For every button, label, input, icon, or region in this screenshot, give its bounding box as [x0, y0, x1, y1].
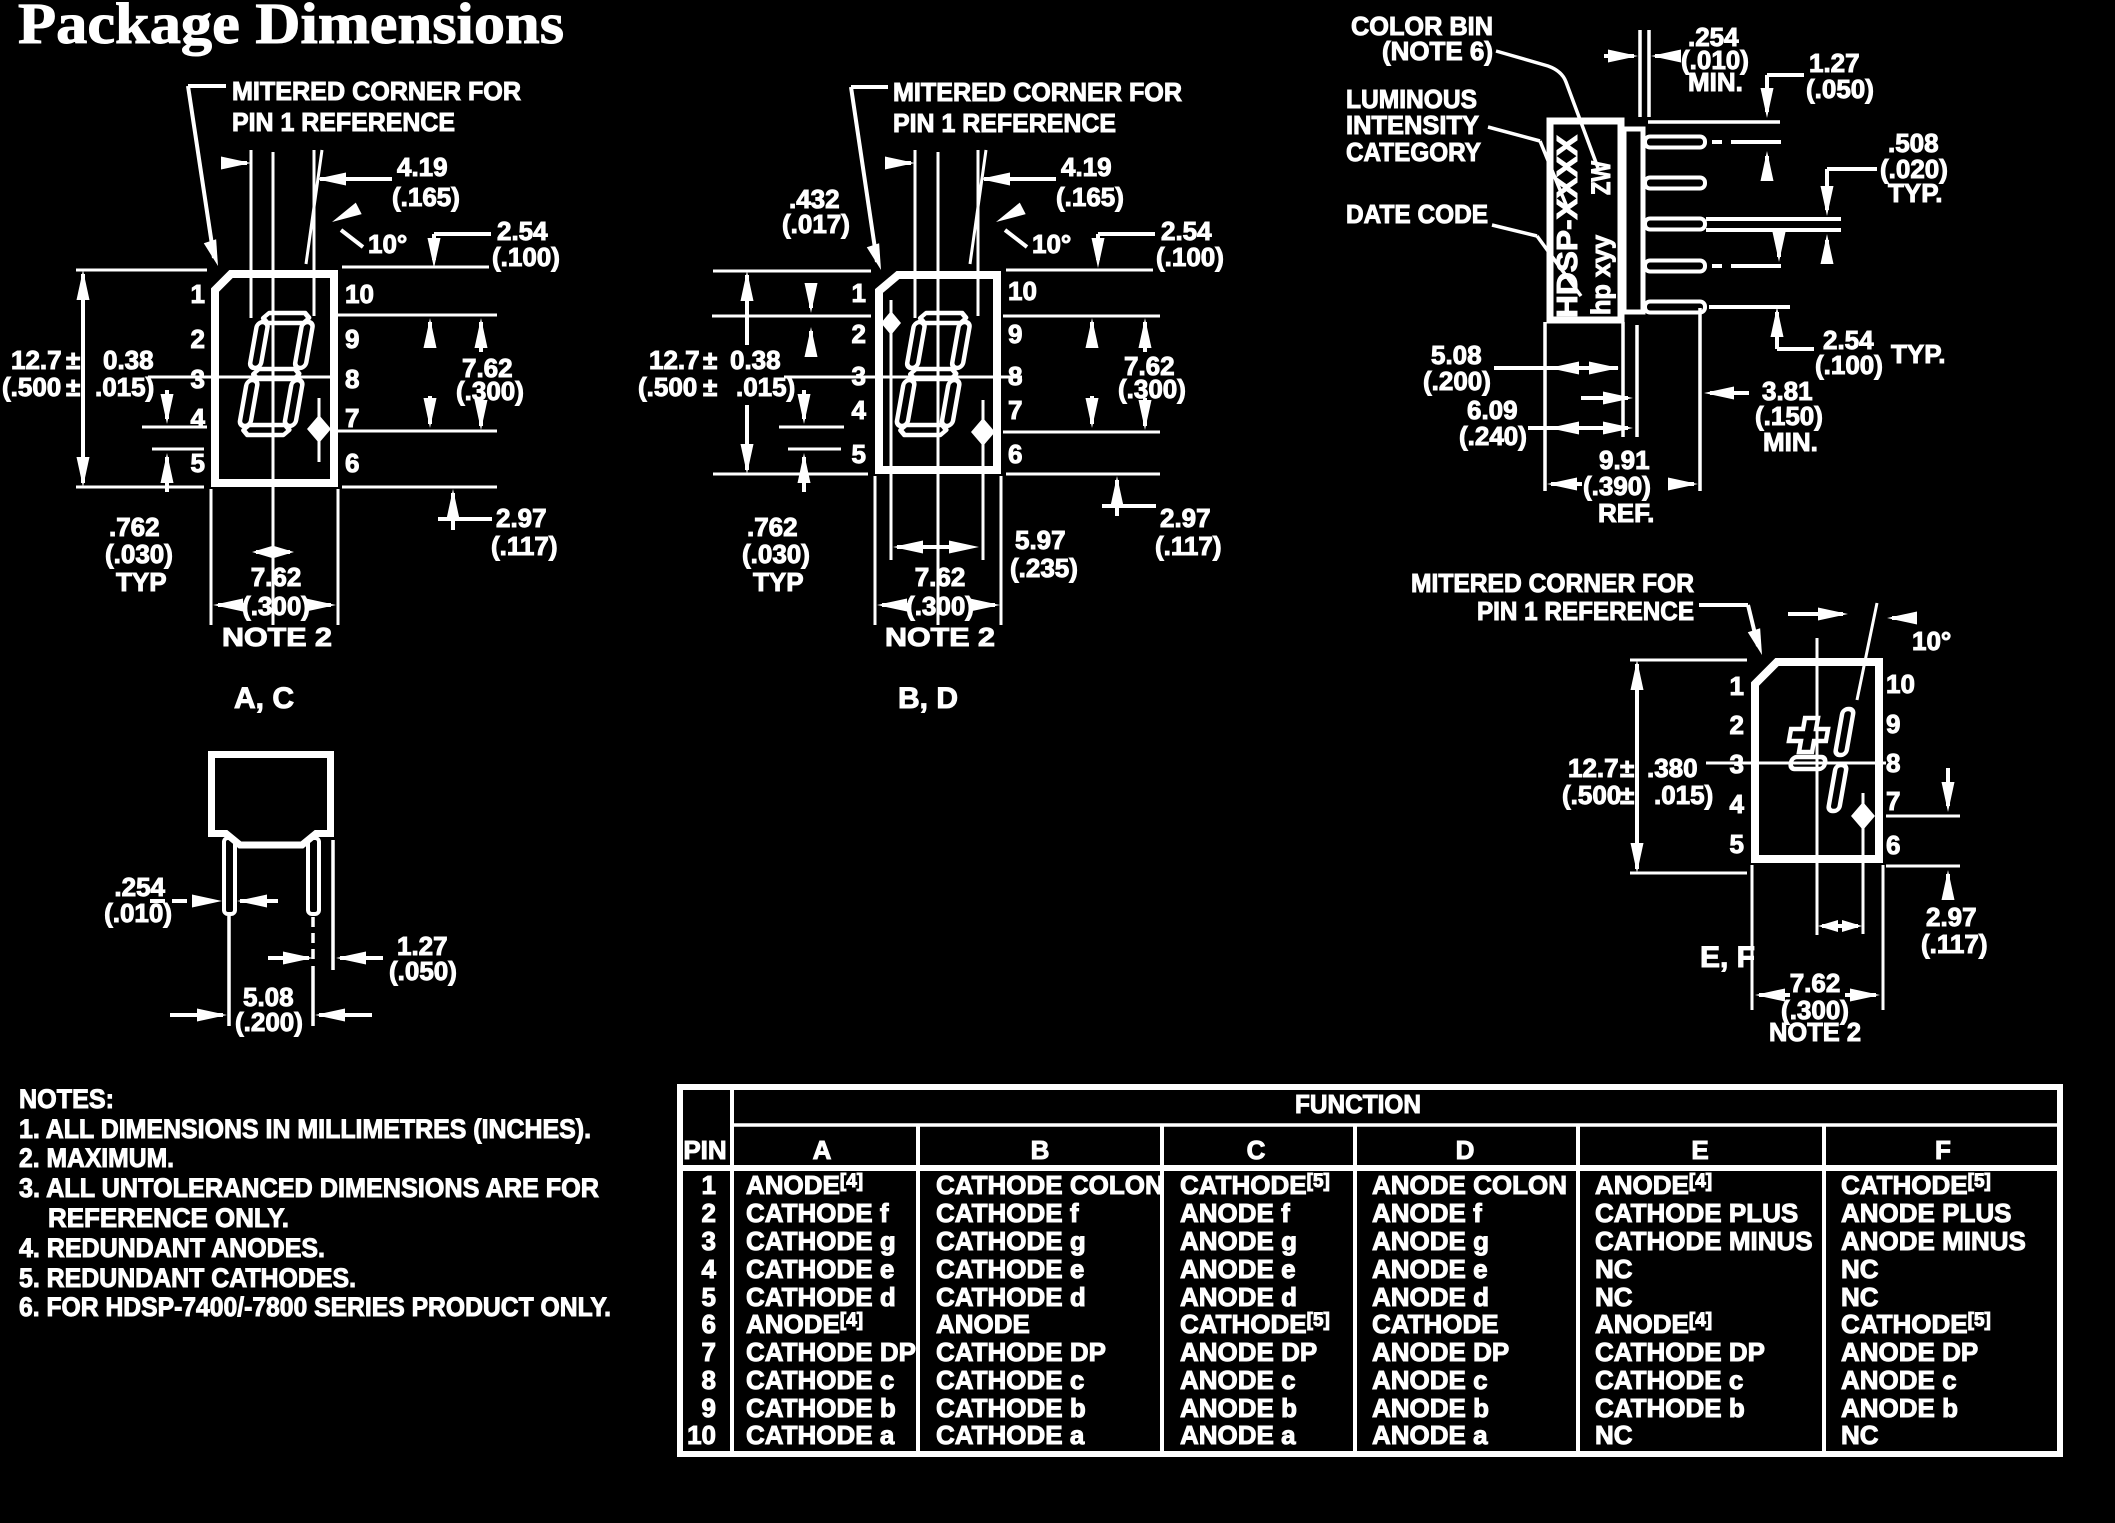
- svg-text:NOTE 2: NOTE 2: [1769, 1017, 1861, 1047]
- pin extension dash lines: [1706, 142, 1841, 307]
- svg-text:10°: 10°: [1032, 229, 1071, 259]
- svg-text:ANODE DP: ANODE DP: [1180, 1337, 1317, 1367]
- svg-text:(.500: (.500: [638, 372, 697, 402]
- svg-text:ANODE[4]: ANODE[4]: [746, 1309, 863, 1339]
- 5.97 (.235) dimension (B,D): [893, 525, 1078, 583]
- 7-segment digit 8 (A,C): [237, 313, 315, 435]
- svg-text:±: ±: [66, 372, 80, 402]
- svg-text:7.62: 7.62: [1790, 968, 1841, 998]
- package outline A,C with mitered pin-1 corner: [215, 274, 334, 483]
- svg-text:CATHODE b: CATHODE b: [936, 1393, 1086, 1423]
- svg-text:7: 7: [702, 1337, 716, 1367]
- svg-text:4.19: 4.19: [1061, 152, 1112, 182]
- view label B, D: [898, 682, 958, 715]
- svg-text:±: ±: [703, 372, 717, 402]
- pin numbers 6-10 right side (E,F): [1886, 669, 1915, 860]
- 1.27 (.050) dimension: [268, 840, 457, 986]
- 7-segment digit 8 (B,D): [894, 313, 972, 435]
- body bottom extension lines: [1545, 308, 1700, 491]
- svg-text:CATHODE d: CATHODE d: [936, 1282, 1086, 1312]
- svg-text:ANODE d: ANODE d: [1372, 1282, 1489, 1312]
- svg-text:.762: .762: [109, 512, 160, 542]
- digit one lower segment (E,F): [1828, 765, 1847, 811]
- 9.91 (.390) REF dimension: [1547, 445, 1698, 528]
- 5.08 (.200) dimension: [1423, 340, 1619, 396]
- 5.08 (.200) dimension: [170, 916, 372, 1037]
- 12.7 +/- 0.38 left dimension (A,C): [2, 270, 207, 487]
- svg-text:(.300): (.300): [242, 591, 310, 621]
- svg-text:4: 4: [1730, 789, 1745, 819]
- table column C data: [1180, 1170, 1330, 1450]
- svg-text:MITERED CORNER FOR: MITERED CORNER FOR: [1411, 568, 1694, 598]
- svg-text:6. FOR HDSP-7400/-7800 SERIES: 6. FOR HDSP-7400/-7800 SERIES PRODUCT ON…: [19, 1292, 611, 1322]
- svg-text:.015): .015): [95, 372, 154, 402]
- svg-text:4: 4: [702, 1254, 717, 1284]
- title: Package Dimensions: [18, 0, 564, 56]
- leader luminous intensity: [1488, 127, 1567, 207]
- svg-text:.380: .380: [1647, 753, 1698, 783]
- svg-text:(.010): (.010): [104, 898, 172, 928]
- svg-text:PIN 1 REFERENCE: PIN 1 REFERENCE: [232, 107, 455, 137]
- svg-text:5: 5: [1730, 829, 1744, 859]
- svg-text:CATHODE b: CATHODE b: [746, 1393, 896, 1423]
- package outline B,D with mitered pin-1 corner: [879, 275, 997, 470]
- table column letters A-F: [813, 1135, 1951, 1165]
- svg-text:(.235): (.235): [1010, 553, 1078, 583]
- svg-text:CATHODE f: CATHODE f: [936, 1198, 1079, 1228]
- digit vertical centerline (E,F): [1816, 638, 1819, 935]
- svg-text:ANODE g: ANODE g: [1180, 1226, 1297, 1256]
- svg-text:CATHODE e: CATHODE e: [746, 1254, 894, 1284]
- svg-text:(.200): (.200): [235, 1007, 303, 1037]
- svg-text:9: 9: [702, 1393, 716, 1423]
- pin3-8 mid line (A,C): [148, 376, 338, 379]
- svg-text:CATHODE g: CATHODE g: [936, 1226, 1086, 1256]
- svg-text:(.100): (.100): [1156, 242, 1224, 272]
- table column F data: [1841, 1170, 2026, 1450]
- end view pin left: [224, 838, 235, 914]
- svg-text:CATHODE MINUS: CATHODE MINUS: [1595, 1226, 1813, 1256]
- svg-text:10: 10: [687, 1420, 716, 1450]
- svg-text:CATHODE DP: CATHODE DP: [1595, 1337, 1765, 1367]
- svg-text:ANODE f: ANODE f: [1372, 1198, 1482, 1228]
- 2.97 (.117) dimension (B,D): [1006, 474, 1222, 561]
- svg-text:(.117): (.117): [1155, 531, 1222, 561]
- svg-text:12.7: 12.7: [11, 345, 62, 375]
- svg-text:ANODE c: ANODE c: [1372, 1365, 1488, 1395]
- svg-text:10°: 10°: [1912, 626, 1951, 656]
- svg-text:10°: 10°: [368, 229, 407, 259]
- svg-text:CATHODE[5]: CATHODE[5]: [1180, 1309, 1330, 1339]
- 7.62 (.300) right-side dimension (A,C): [338, 315, 524, 431]
- svg-text:ANODE a: ANODE a: [1180, 1420, 1296, 1450]
- svg-text:0.38: 0.38: [730, 345, 781, 375]
- 4.19 dimension verticals and 10-deg tilt line (B,D): [915, 150, 986, 318]
- svg-text:CATHODE g: CATHODE g: [746, 1226, 896, 1256]
- svg-text:(.165): (.165): [1056, 182, 1124, 212]
- svg-text:ANODE g: ANODE g: [1372, 1226, 1489, 1256]
- svg-text:CATHODE[5]: CATHODE[5]: [1841, 1170, 1991, 1200]
- svg-text:2: 2: [702, 1198, 716, 1228]
- svg-text:(.390): (.390): [1583, 471, 1651, 501]
- svg-text:NC: NC: [1841, 1254, 1879, 1284]
- svg-text:(.240): (.240): [1459, 421, 1527, 451]
- svg-text:ANODE a: ANODE a: [1372, 1420, 1488, 1450]
- label COLOR BIN (NOTE 6): [1351, 11, 1493, 66]
- small double arrow center-to-DP (E,F): [1818, 920, 1862, 932]
- svg-text:CATHODE a: CATHODE a: [746, 1420, 895, 1450]
- svg-text:TYP.: TYP.: [1888, 178, 1942, 208]
- side view pins 1-5: [1645, 137, 1705, 313]
- .762 (.030) TYP label (B,D): [742, 512, 810, 597]
- table header lines: [680, 1125, 2060, 1168]
- rotated part marking HDSP-XXXX: [1552, 134, 1584, 318]
- top arrows and 10 deg label (E,F): [1788, 608, 1951, 657]
- svg-text:A, C: A, C: [234, 682, 294, 715]
- svg-text:E, F: E, F: [1700, 941, 1755, 974]
- svg-text:7: 7: [1886, 786, 1900, 816]
- 10 deg label and arrow (B,D): [993, 203, 1071, 259]
- svg-text:ANODE d: ANODE d: [1180, 1282, 1297, 1312]
- svg-text:2: 2: [191, 324, 205, 354]
- svg-text:Package Dimensions: Package Dimensions: [18, 0, 564, 56]
- svg-text:(.300): (.300): [1118, 374, 1186, 404]
- svg-text:NOTE 2: NOTE 2: [222, 622, 332, 652]
- 7.62 (.300) NOTE 2 bottom dimension (E,F): [1752, 865, 1883, 1047]
- colon dot diamond upper-left (B,D): [881, 300, 901, 560]
- 1.27 (.050) dimension: [1648, 48, 1874, 181]
- pin numbers 6-10 right side (A,C): [345, 279, 374, 478]
- svg-text:ANODE e: ANODE e: [1372, 1254, 1488, 1284]
- 2.97 (.117) dimension (A,C): [342, 487, 558, 561]
- svg-text:ANODE b: ANODE b: [1372, 1393, 1489, 1423]
- decimal point diamond (A,C): [307, 398, 331, 462]
- small double arrow center-to-DP (A,C): [252, 546, 294, 558]
- leader color bin: [1496, 51, 1598, 168]
- svg-text:CATHODE d: CATHODE d: [746, 1282, 896, 1312]
- 2.54 pitch arrow mid: [1773, 232, 1786, 262]
- svg-text:A: A: [813, 1135, 832, 1165]
- svg-text:7: 7: [1008, 395, 1022, 425]
- svg-text:ANODE DP: ANODE DP: [1372, 1337, 1509, 1367]
- svg-text:2.97: 2.97: [1926, 902, 1977, 932]
- svg-text:CATHODE b: CATHODE b: [1595, 1393, 1745, 1423]
- 3.81 (.150) MIN dimension: [1704, 376, 1823, 457]
- 2.54 (.100) TYP dimension bottom: [1771, 307, 1946, 380]
- 7.62 (.300) NOTE 2 bottom dimension (A,C): [211, 489, 338, 652]
- table column B data: [936, 1170, 1164, 1450]
- svg-text:ANODE c: ANODE c: [1841, 1365, 1957, 1395]
- svg-text:6: 6: [1886, 830, 1900, 860]
- leader to mitered corner (A,C): [188, 86, 226, 268]
- svg-text:(.030): (.030): [105, 539, 173, 569]
- .254 (.010) pin width dimension: [104, 872, 278, 928]
- svg-text:DATE CODE: DATE CODE: [1346, 199, 1488, 229]
- svg-text:(.050): (.050): [1806, 74, 1874, 104]
- svg-text:CATHODE e: CATHODE e: [936, 1254, 1084, 1284]
- svg-text:9: 9: [345, 324, 359, 354]
- label: MITERED CORNER FOR PIN 1 REFERENCE (E,F): [1411, 568, 1694, 626]
- svg-text:CATHODE DP: CATHODE DP: [936, 1337, 1106, 1367]
- svg-text:4.19: 4.19: [397, 152, 448, 182]
- svg-text:(NOTE 6): (NOTE 6): [1382, 36, 1493, 66]
- svg-text:8: 8: [345, 364, 359, 394]
- svg-text:7: 7: [345, 403, 359, 433]
- table column E data: [1595, 1170, 1813, 1450]
- svg-text:CATHODE: CATHODE: [1372, 1309, 1499, 1339]
- leader to mitered corner (E,F): [1699, 605, 1768, 657]
- 4.19 (.165) dimension arrows and text (A,C): [221, 152, 460, 212]
- table header FUNCTION: [1295, 1089, 1421, 1119]
- svg-text:(.300): (.300): [456, 376, 524, 406]
- extra pitch arrow: [1581, 392, 1633, 405]
- svg-text:(.165): (.165): [392, 182, 460, 212]
- svg-text:12.7: 12.7: [649, 345, 700, 375]
- package outline E,F with mitered pin-1 corner: [1755, 662, 1879, 859]
- svg-text:ANODE: ANODE: [936, 1309, 1030, 1339]
- svg-text:5: 5: [702, 1282, 716, 1312]
- 2.54 (.100) dimension (B,D): [1006, 216, 1224, 272]
- 2.97 (.117) dimension (E,F): [1886, 768, 1988, 959]
- svg-text:(.300): (.300): [906, 591, 974, 621]
- svg-text:6: 6: [345, 448, 359, 478]
- svg-text:PIN: PIN: [683, 1135, 726, 1165]
- svg-text:(.030): (.030): [742, 539, 810, 569]
- svg-text:D: D: [1456, 1135, 1475, 1165]
- pin3-8 mid line (B,D): [784, 376, 1022, 379]
- 7.62 (.300) right-side dimension (B,D): [1003, 316, 1186, 432]
- svg-text:TYP: TYP: [753, 567, 804, 597]
- svg-text:±: ±: [1620, 753, 1634, 783]
- svg-text:CATHODE PLUS: CATHODE PLUS: [1595, 1198, 1798, 1228]
- decimal point diamond lower-right (B,D): [971, 400, 995, 560]
- svg-text:NOTE 2: NOTE 2: [885, 622, 995, 652]
- svg-text:PIN 1 REFERENCE: PIN 1 REFERENCE: [1477, 596, 1694, 626]
- svg-text:.015): .015): [736, 372, 795, 402]
- leader date code: [1492, 225, 1581, 296]
- end view pin right: [308, 838, 319, 914]
- svg-text:7.62: 7.62: [251, 562, 302, 592]
- svg-text:(.500: (.500: [2, 372, 61, 402]
- pin numbers 6-10 right side (B,D): [1008, 276, 1037, 469]
- svg-text:F: F: [1935, 1135, 1951, 1165]
- svg-text:ANODE[4]: ANODE[4]: [1595, 1309, 1712, 1339]
- svg-text:CATHODE COLON: CATHODE COLON: [936, 1170, 1164, 1200]
- rotated marking ZW (color bin): [1586, 161, 1616, 195]
- 10 deg label and arrow (A,C): [329, 203, 407, 259]
- side view package body: [1550, 121, 1643, 320]
- svg-text:2. MAXIMUM.: 2. MAXIMUM.: [19, 1143, 174, 1173]
- notes block: [19, 1084, 611, 1322]
- svg-text:4. REDUNDANT ANODES.: 4. REDUNDANT ANODES.: [19, 1233, 325, 1263]
- 7.62 (.300) NOTE 2 bottom dimension (B,D): [875, 476, 1001, 652]
- svg-text:ANODE e: ANODE e: [1180, 1254, 1296, 1284]
- svg-text:5.97: 5.97: [1015, 525, 1066, 555]
- 4.19 (.165) dimension arrows and text (B,D): [885, 152, 1124, 212]
- digit one upper segment (E,F): [1835, 709, 1854, 755]
- svg-text:±: ±: [703, 345, 717, 375]
- svg-text:2: 2: [1730, 710, 1744, 740]
- svg-text:INTENSITY: INTENSITY: [1346, 110, 1479, 140]
- svg-text:±: ±: [1620, 780, 1634, 810]
- svg-text:(.100): (.100): [492, 242, 560, 272]
- digit vertical centerline (A,C): [272, 152, 275, 625]
- svg-text:5: 5: [191, 448, 205, 478]
- svg-text:MITERED CORNER FOR: MITERED CORNER FOR: [232, 76, 521, 106]
- svg-text:CATHODE DP: CATHODE DP: [746, 1337, 916, 1367]
- svg-text:3. ALL UNTOLERANCED DIMENSIONS: 3. ALL UNTOLERANCED DIMENSIONS ARE FOR: [19, 1173, 599, 1203]
- label: MITERED CORNER FOR PIN 1 REFERENCE (A,C): [232, 76, 521, 137]
- svg-text:CATHODE f: CATHODE f: [746, 1198, 889, 1228]
- label LUMINOUS INTENSITY CATEGORY: [1346, 84, 1481, 167]
- svg-text:MITERED CORNER FOR: MITERED CORNER FOR: [893, 77, 1182, 107]
- svg-text:6: 6: [1008, 439, 1022, 469]
- svg-text:10: 10: [1008, 276, 1037, 306]
- svg-text:12.7: 12.7: [1568, 753, 1619, 783]
- svg-text:CATHODE c: CATHODE c: [936, 1365, 1084, 1395]
- table column D data: [1372, 1170, 1567, 1450]
- svg-text:HDSP-XXXX: HDSP-XXXX: [1552, 134, 1584, 318]
- svg-text:9: 9: [1008, 319, 1022, 349]
- table pin number column: [687, 1170, 716, 1450]
- digit vertical centerline (B,D): [937, 152, 940, 625]
- 10-deg tilt line (E,F): [1857, 603, 1877, 700]
- svg-text:(.017): (.017): [782, 209, 850, 239]
- svg-text:NC: NC: [1595, 1420, 1633, 1450]
- pin function table frame: [680, 1087, 2060, 1454]
- table column dividers: [732, 1087, 1824, 1454]
- pin numbers 1-5 left side (B,D): [852, 278, 867, 469]
- svg-text:hp xyy: hp xyy: [1586, 235, 1616, 315]
- svg-text:1: 1: [191, 279, 205, 309]
- svg-text:3: 3: [191, 364, 205, 394]
- svg-text:REFERENCE ONLY.: REFERENCE ONLY.: [48, 1203, 289, 1233]
- svg-text:MIN.: MIN.: [1763, 427, 1818, 457]
- label DATE CODE: [1346, 199, 1488, 229]
- svg-text:(.117): (.117): [491, 531, 558, 561]
- svg-text:7.62: 7.62: [915, 562, 966, 592]
- view label E, F: [1700, 941, 1755, 974]
- svg-text:C: C: [1247, 1135, 1266, 1165]
- svg-text:(.117): (.117): [1921, 929, 1988, 959]
- svg-text:NOTES:: NOTES:: [19, 1084, 114, 1114]
- svg-text:2.97: 2.97: [496, 503, 547, 533]
- svg-text:.015): .015): [1654, 780, 1713, 810]
- .254 (.010) MIN dimension: [1604, 22, 1749, 117]
- svg-text:CATEGORY: CATEGORY: [1346, 137, 1481, 167]
- svg-text:CATHODE[5]: CATHODE[5]: [1841, 1309, 1991, 1339]
- 6.09 (.240) dimension: [1459, 395, 1633, 451]
- svg-text:ANODE DP: ANODE DP: [1841, 1337, 1978, 1367]
- svg-text:CATHODE a: CATHODE a: [936, 1420, 1085, 1450]
- svg-text:NC: NC: [1595, 1282, 1633, 1312]
- svg-text:±: ±: [66, 345, 80, 375]
- pin numbers 1-5 left side (A,C): [191, 279, 206, 478]
- svg-text:2: 2: [852, 319, 866, 349]
- 12.7 +/- 0.38 left dimension (B,D): [638, 271, 871, 474]
- rotated marking hp xyy: [1586, 235, 1616, 315]
- svg-text:ZW: ZW: [1586, 161, 1616, 195]
- svg-text:B: B: [1031, 1135, 1050, 1165]
- svg-text:10: 10: [345, 279, 374, 309]
- svg-text:ANODE c: ANODE c: [1180, 1365, 1296, 1395]
- svg-text:(.500: (.500: [1562, 780, 1621, 810]
- svg-text:NC: NC: [1841, 1282, 1879, 1312]
- svg-text:FUNCTION: FUNCTION: [1295, 1089, 1421, 1119]
- svg-text:NC: NC: [1841, 1420, 1879, 1450]
- svg-text:E: E: [1691, 1135, 1708, 1165]
- svg-text:CATHODE c: CATHODE c: [746, 1365, 894, 1395]
- svg-text:CATHODE c: CATHODE c: [1595, 1365, 1743, 1395]
- svg-text:ANODE MINUS: ANODE MINUS: [1841, 1226, 2026, 1256]
- svg-text:8: 8: [1886, 748, 1900, 778]
- end view package body with seating rib: [212, 755, 331, 846]
- table column A data: [746, 1170, 916, 1450]
- svg-text:ANODE[4]: ANODE[4]: [746, 1170, 863, 1200]
- svg-text:0.38: 0.38: [103, 345, 154, 375]
- svg-text:1: 1: [702, 1170, 716, 1200]
- .762 (.030) TYP label (A,C): [105, 512, 173, 597]
- svg-text:6: 6: [702, 1309, 716, 1339]
- svg-text:5. REDUNDANT CATHODES.: 5. REDUNDANT CATHODES.: [19, 1263, 356, 1293]
- svg-text:.762: .762: [747, 512, 798, 542]
- svg-text:2.97: 2.97: [1160, 503, 1211, 533]
- svg-text:MIN.: MIN.: [1688, 67, 1743, 97]
- pin3-8 mid line (E,F): [1706, 762, 1886, 765]
- svg-text:1: 1: [1730, 671, 1744, 701]
- minus segment (E,F): [1790, 757, 1826, 769]
- svg-text:5: 5: [852, 439, 866, 469]
- svg-text:ANODE b: ANODE b: [1841, 1393, 1958, 1423]
- svg-text:8: 8: [702, 1365, 716, 1395]
- view label A, C: [234, 682, 294, 715]
- svg-text:REF.: REF.: [1598, 498, 1654, 528]
- svg-text:NC: NC: [1595, 1254, 1633, 1284]
- 4.19 dimension verticals and 10-deg tilt line (A,C): [251, 150, 322, 318]
- svg-text:ANODE f: ANODE f: [1180, 1198, 1290, 1228]
- table header PIN: [683, 1135, 726, 1165]
- svg-text:CATHODE[5]: CATHODE[5]: [1180, 1170, 1330, 1200]
- 12.7 +/- .380 left dimension (E,F): [1562, 660, 1747, 873]
- svg-text:ANODE b: ANODE b: [1180, 1393, 1297, 1423]
- svg-text:(.100): (.100): [1815, 350, 1883, 380]
- decimal point diamond (E,F): [1851, 793, 1875, 934]
- svg-text:ANODE PLUS: ANODE PLUS: [1841, 1198, 2011, 1228]
- svg-text:TYP: TYP: [116, 567, 167, 597]
- svg-text:3: 3: [702, 1226, 716, 1256]
- 0.38 tolerance band arrows (B,D): [779, 390, 844, 492]
- svg-text:(.200): (.200): [1423, 366, 1491, 396]
- svg-text:4: 4: [852, 395, 867, 425]
- svg-text:9: 9: [1886, 709, 1900, 739]
- .508 (.020) TYP dimension: [1821, 128, 1948, 264]
- svg-text:10: 10: [1886, 669, 1915, 699]
- svg-text:ANODE[4]: ANODE[4]: [1595, 1170, 1712, 1200]
- label: MITERED CORNER FOR PIN 1 REFERENCE (B,D): [893, 77, 1182, 138]
- svg-text:1: 1: [852, 278, 866, 308]
- svg-text:PIN 1 REFERENCE: PIN 1 REFERENCE: [893, 108, 1116, 138]
- svg-text:ANODE COLON: ANODE COLON: [1372, 1170, 1567, 1200]
- leader to mitered corner (B,D): [851, 87, 888, 272]
- 2.54 (.100) dimension (A,C): [342, 216, 560, 272]
- plus sign segment (E,F): [1787, 718, 1830, 752]
- pin numbers 1-5 left side (E,F): [1730, 671, 1745, 859]
- svg-text:1. ALL DIMENSIONS IN MILLIMETR: 1. ALL DIMENSIONS IN MILLIMETRES (INCHES…: [19, 1114, 591, 1144]
- svg-text:B, D: B, D: [898, 682, 958, 715]
- .432 (.017) dimension (B,D): [712, 184, 871, 357]
- svg-text:TYP.: TYP.: [1891, 339, 1945, 369]
- 0.38 tolerance band arrows (A,C): [142, 390, 207, 492]
